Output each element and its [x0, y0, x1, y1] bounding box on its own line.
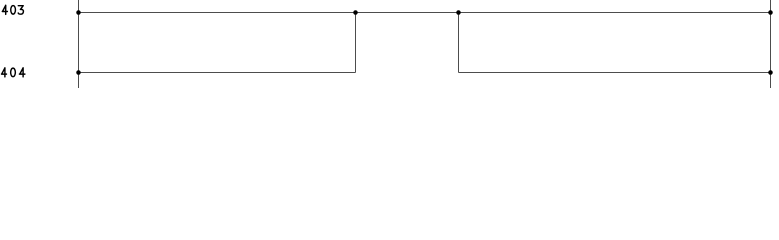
junction left bus / rung 404 — [76, 70, 81, 75]
junction riser left / rung 403 — [353, 10, 358, 15]
wire rung 404 left segment — [79, 72, 356, 74]
wire riser right (rung 403 to rung 404) — [458, 13, 460, 73]
node label 403 digit 3 — [18, 6, 23, 15]
wire left bus rail — [78, 0, 80, 88]
node label 404 digit 4 — [19, 68, 25, 77]
wire riser left (rung 403 to rung 404) — [355, 13, 357, 73]
junction right bus / rung 403 — [768, 10, 773, 15]
junction riser right / rung 403 — [456, 10, 461, 15]
node label 404 digit 0 — [11, 68, 16, 77]
node label 403 digit 4 — [2, 5, 7, 14]
wire rung 403 horizontal — [79, 12, 771, 14]
junction left bus / rung 403 — [76, 10, 81, 15]
node label 404 digit 4 — [2, 68, 7, 77]
node label 403 digit 0 — [11, 6, 16, 15]
wire rung 404 right segment — [459, 72, 771, 74]
wire right bus rail — [770, 0, 772, 88]
junction right bus / rung 404 — [768, 70, 773, 75]
